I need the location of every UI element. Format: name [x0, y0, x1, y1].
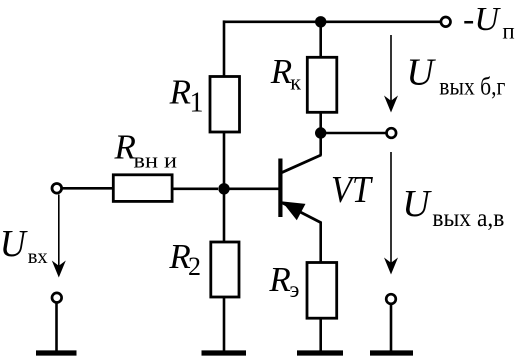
terminal output a,v bottom (open circle)	[386, 294, 396, 304]
svg-text:вых б,г: вых б,г	[439, 73, 505, 100]
junction node at collector	[315, 127, 326, 138]
arrow Uvyx b,g	[390, 35, 392, 107]
ground symbol under output a,v	[370, 350, 413, 355]
wire top supply rail	[224, 20, 440, 23]
svg-text:VT: VT	[331, 169, 374, 211]
wire Rk top drop	[319, 22, 322, 58]
terminal -Up (open circle)	[441, 17, 451, 27]
svg-text:э: э	[290, 277, 300, 302]
resistor Rvn (source internal resistance)	[113, 175, 172, 202]
svg-text:вых а,в: вых а,в	[432, 205, 504, 232]
ground symbol under input	[36, 350, 77, 355]
wire input lower terminal stem	[55, 303, 58, 352]
svg-text:U: U	[0, 223, 28, 265]
label -Up	[463, 1, 515, 44]
label Rk	[270, 52, 302, 94]
svg-text:-U: -U	[463, 1, 501, 38]
wire collector node to output terminal	[321, 132, 386, 135]
svg-text:1: 1	[190, 88, 204, 119]
terminal output b,g (open circle)	[387, 128, 397, 138]
wire R1 top drop	[223, 20, 226, 77]
resistor Re	[307, 263, 337, 319]
wire R1 bottom to base node to R2 top	[223, 132, 226, 243]
arrow Uvyx a,v	[390, 152, 392, 269]
svg-text:вн и: вн и	[134, 148, 178, 173]
svg-text:R: R	[169, 72, 191, 111]
terminal input top (open circle)	[52, 184, 62, 194]
resistor R2	[211, 242, 239, 297]
svg-text:п: п	[502, 19, 514, 44]
ground symbol under R2	[202, 350, 247, 355]
wire Re bottom to ground	[319, 318, 322, 352]
svg-text:U: U	[406, 51, 436, 93]
label Uvx	[0, 223, 48, 268]
wire Rk bottom to collector node	[319, 112, 322, 133]
svg-text:R: R	[268, 260, 290, 299]
svg-text:R: R	[270, 52, 292, 91]
wire emitter vertical to Re	[319, 222, 322, 264]
ground symbol under Re	[297, 350, 343, 355]
wire base lead	[224, 188, 279, 191]
wire collector diagonal lead	[282, 155, 322, 173]
junction node at base divider	[218, 183, 229, 194]
junction node on top rail	[315, 16, 326, 27]
wire emitter diagonal lead	[282, 203, 321, 223]
resistor Rk	[307, 57, 337, 112]
wire output a,v terminal stem	[390, 305, 393, 353]
arrow Uvx (input voltage)	[58, 195, 60, 273]
label Uvyx a,v	[402, 183, 504, 232]
wire Rvn to base node	[172, 188, 218, 191]
resistor R1	[210, 77, 240, 133]
label Re	[268, 260, 299, 302]
label Uvyx b,g	[406, 51, 505, 100]
label R1	[169, 72, 204, 118]
transistor VT base bar	[278, 159, 282, 218]
wire input terminal to Rvn	[63, 187, 114, 190]
wire R2 bottom to ground	[223, 297, 226, 352]
svg-text:к: к	[290, 70, 301, 95]
svg-text:U: U	[402, 183, 432, 225]
wire collector node down	[319, 133, 322, 155]
label Rvn i	[114, 127, 178, 172]
svg-text:вх: вх	[28, 244, 48, 268]
svg-text:2: 2	[188, 252, 201, 281]
transistor VT emitter arrowhead (PNP)	[283, 202, 305, 219]
terminal input bottom (open circle)	[52, 293, 62, 303]
label R2	[168, 237, 201, 281]
